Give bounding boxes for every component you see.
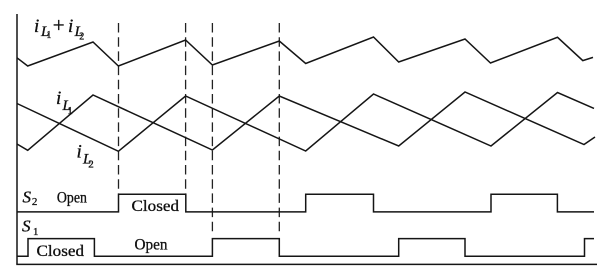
svg-text:Closed: Closed	[37, 243, 85, 260]
switch S2 gate trace	[17, 194, 594, 212]
dashed timing line t1 (x=118.5)	[118, 23, 120, 194]
svg-text:i: i	[34, 16, 39, 37]
svg-text:1: 1	[67, 105, 73, 117]
horizontal time axis	[16, 263, 597, 265]
svg-text:2: 2	[32, 196, 38, 208]
svg-text:Open: Open	[57, 189, 87, 206]
svg-text:2: 2	[79, 32, 84, 43]
svg-text:i: i	[68, 16, 73, 37]
svg-text:2: 2	[88, 159, 94, 171]
svg-text:i: i	[77, 142, 82, 163]
svg-text:Open: Open	[135, 237, 168, 254]
svg-text:Closed: Closed	[132, 198, 180, 215]
label iL1+iL2	[34, 13, 84, 43]
waveform iL1+iL2 (total inductor current)	[17, 37, 593, 66]
waveform iL1 (inductor 1 current)	[17, 92, 595, 150]
label S2	[23, 187, 38, 208]
label S1	[22, 216, 39, 238]
dashed timing line t2 (x=185.6)	[185, 23, 187, 194]
svg-text:S: S	[23, 187, 32, 206]
svg-text:S: S	[22, 216, 31, 235]
svg-text:1: 1	[46, 30, 51, 41]
waveform iL2 (inductor 2 current)	[17, 93, 594, 152]
label iL2	[77, 142, 94, 171]
svg-text:i: i	[56, 88, 61, 109]
dashed timing line t3 (x=212.4)	[211, 23, 213, 234]
svg-text:+: +	[53, 13, 65, 37]
switch S1 gate trace	[17, 239, 594, 257]
label iL1	[56, 88, 73, 117]
dashed timing line t4 (x=279.3)	[278, 23, 280, 234]
svg-text:1: 1	[33, 226, 39, 238]
vertical current axis	[16, 14, 18, 264]
